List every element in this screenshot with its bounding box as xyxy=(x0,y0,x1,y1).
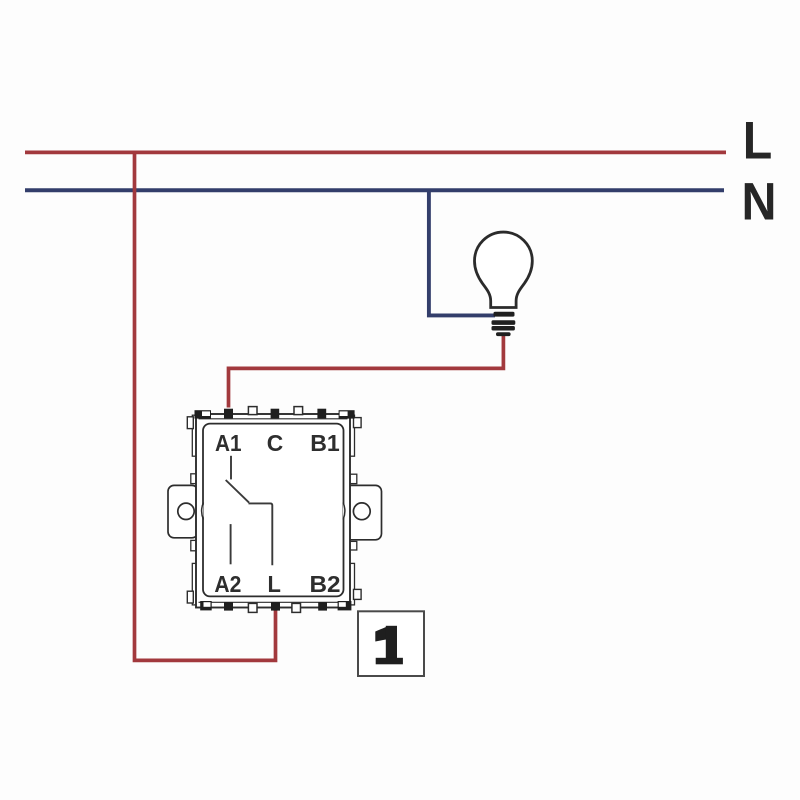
terminal tab A1 top xyxy=(224,409,233,419)
switch side notch upper-left xyxy=(191,474,197,484)
label L xyxy=(743,112,773,171)
switch side claw top-right xyxy=(354,418,362,428)
svg-text:L: L xyxy=(268,571,281,597)
lamp E1 base contact xyxy=(496,332,511,336)
switch side claw bottom-right xyxy=(354,589,362,599)
terminal tab L bottom xyxy=(271,602,280,611)
switch corner claw top-left xyxy=(195,410,212,418)
wire N line xyxy=(25,188,724,192)
switch side claw bottom-left xyxy=(187,591,193,603)
lamp E1 bulb glass xyxy=(474,232,532,307)
switch corner claw top-right xyxy=(339,410,355,418)
switch mounting ear right xyxy=(344,485,382,539)
wire blue N branch to lamp xyxy=(429,190,495,315)
switch outer frame xyxy=(196,414,350,608)
white tab top 2 xyxy=(294,407,303,415)
label B2 xyxy=(310,571,341,597)
switch contact wire from A1 xyxy=(230,456,232,480)
svg-text:C: C xyxy=(267,430,284,456)
switch wire to L xyxy=(249,503,273,565)
switch side notch lower-left xyxy=(191,540,197,550)
switch corner claw bottom-left xyxy=(200,601,212,610)
svg-text:L: L xyxy=(743,112,773,171)
terminal tab A2 bottom xyxy=(224,602,233,611)
label N xyxy=(742,173,777,232)
wire L line xyxy=(25,151,726,155)
terminal tab C top xyxy=(271,409,280,419)
switch side rail right top xyxy=(348,415,354,456)
callout number 1 xyxy=(375,626,403,665)
switch wire stub A2 xyxy=(230,524,232,564)
svg-text:B1: B1 xyxy=(310,430,340,456)
switch side rail left bottom xyxy=(192,563,198,605)
svg-text:N: N xyxy=(742,173,777,232)
terminal tab B2 bottom xyxy=(318,602,327,611)
wire red L branch to switch terminal L xyxy=(135,151,276,661)
label Lterm xyxy=(268,571,281,597)
white tab top 1 xyxy=(248,407,257,415)
terminal tab B1 top xyxy=(317,409,326,419)
switch corner claw bottom-right xyxy=(338,601,352,610)
svg-text:B2: B2 xyxy=(310,571,341,597)
white tab bottom 1 xyxy=(248,603,257,612)
switch face bulge right xyxy=(343,503,345,520)
switch side notch lower-right xyxy=(350,541,357,550)
lamp E1 screw base thread 1 xyxy=(494,312,515,317)
label C xyxy=(267,430,284,456)
label A2 xyxy=(214,571,241,597)
switch side rail right bottom xyxy=(348,563,354,605)
switch face bulge left xyxy=(202,503,204,520)
switch side rail left top xyxy=(192,415,198,456)
switch inner frame line xyxy=(199,419,348,603)
switch side claw top-left xyxy=(187,417,193,429)
label A1 xyxy=(215,430,242,456)
switch mounting ear left xyxy=(168,485,198,537)
switch side notch upper-right xyxy=(350,474,357,483)
switch contact blade xyxy=(226,480,249,503)
label B1 xyxy=(310,430,340,456)
callout box xyxy=(358,611,424,676)
svg-text:A2: A2 xyxy=(214,571,241,597)
wire red lamp to switch terminal A1 xyxy=(229,335,504,408)
lamp E1 screw base thread 3 xyxy=(492,326,515,331)
white tab bottom 2 xyxy=(292,603,301,612)
switch module face xyxy=(203,424,344,597)
svg-text:A1: A1 xyxy=(215,430,242,456)
lamp E1 screw base thread 2 xyxy=(492,320,516,325)
